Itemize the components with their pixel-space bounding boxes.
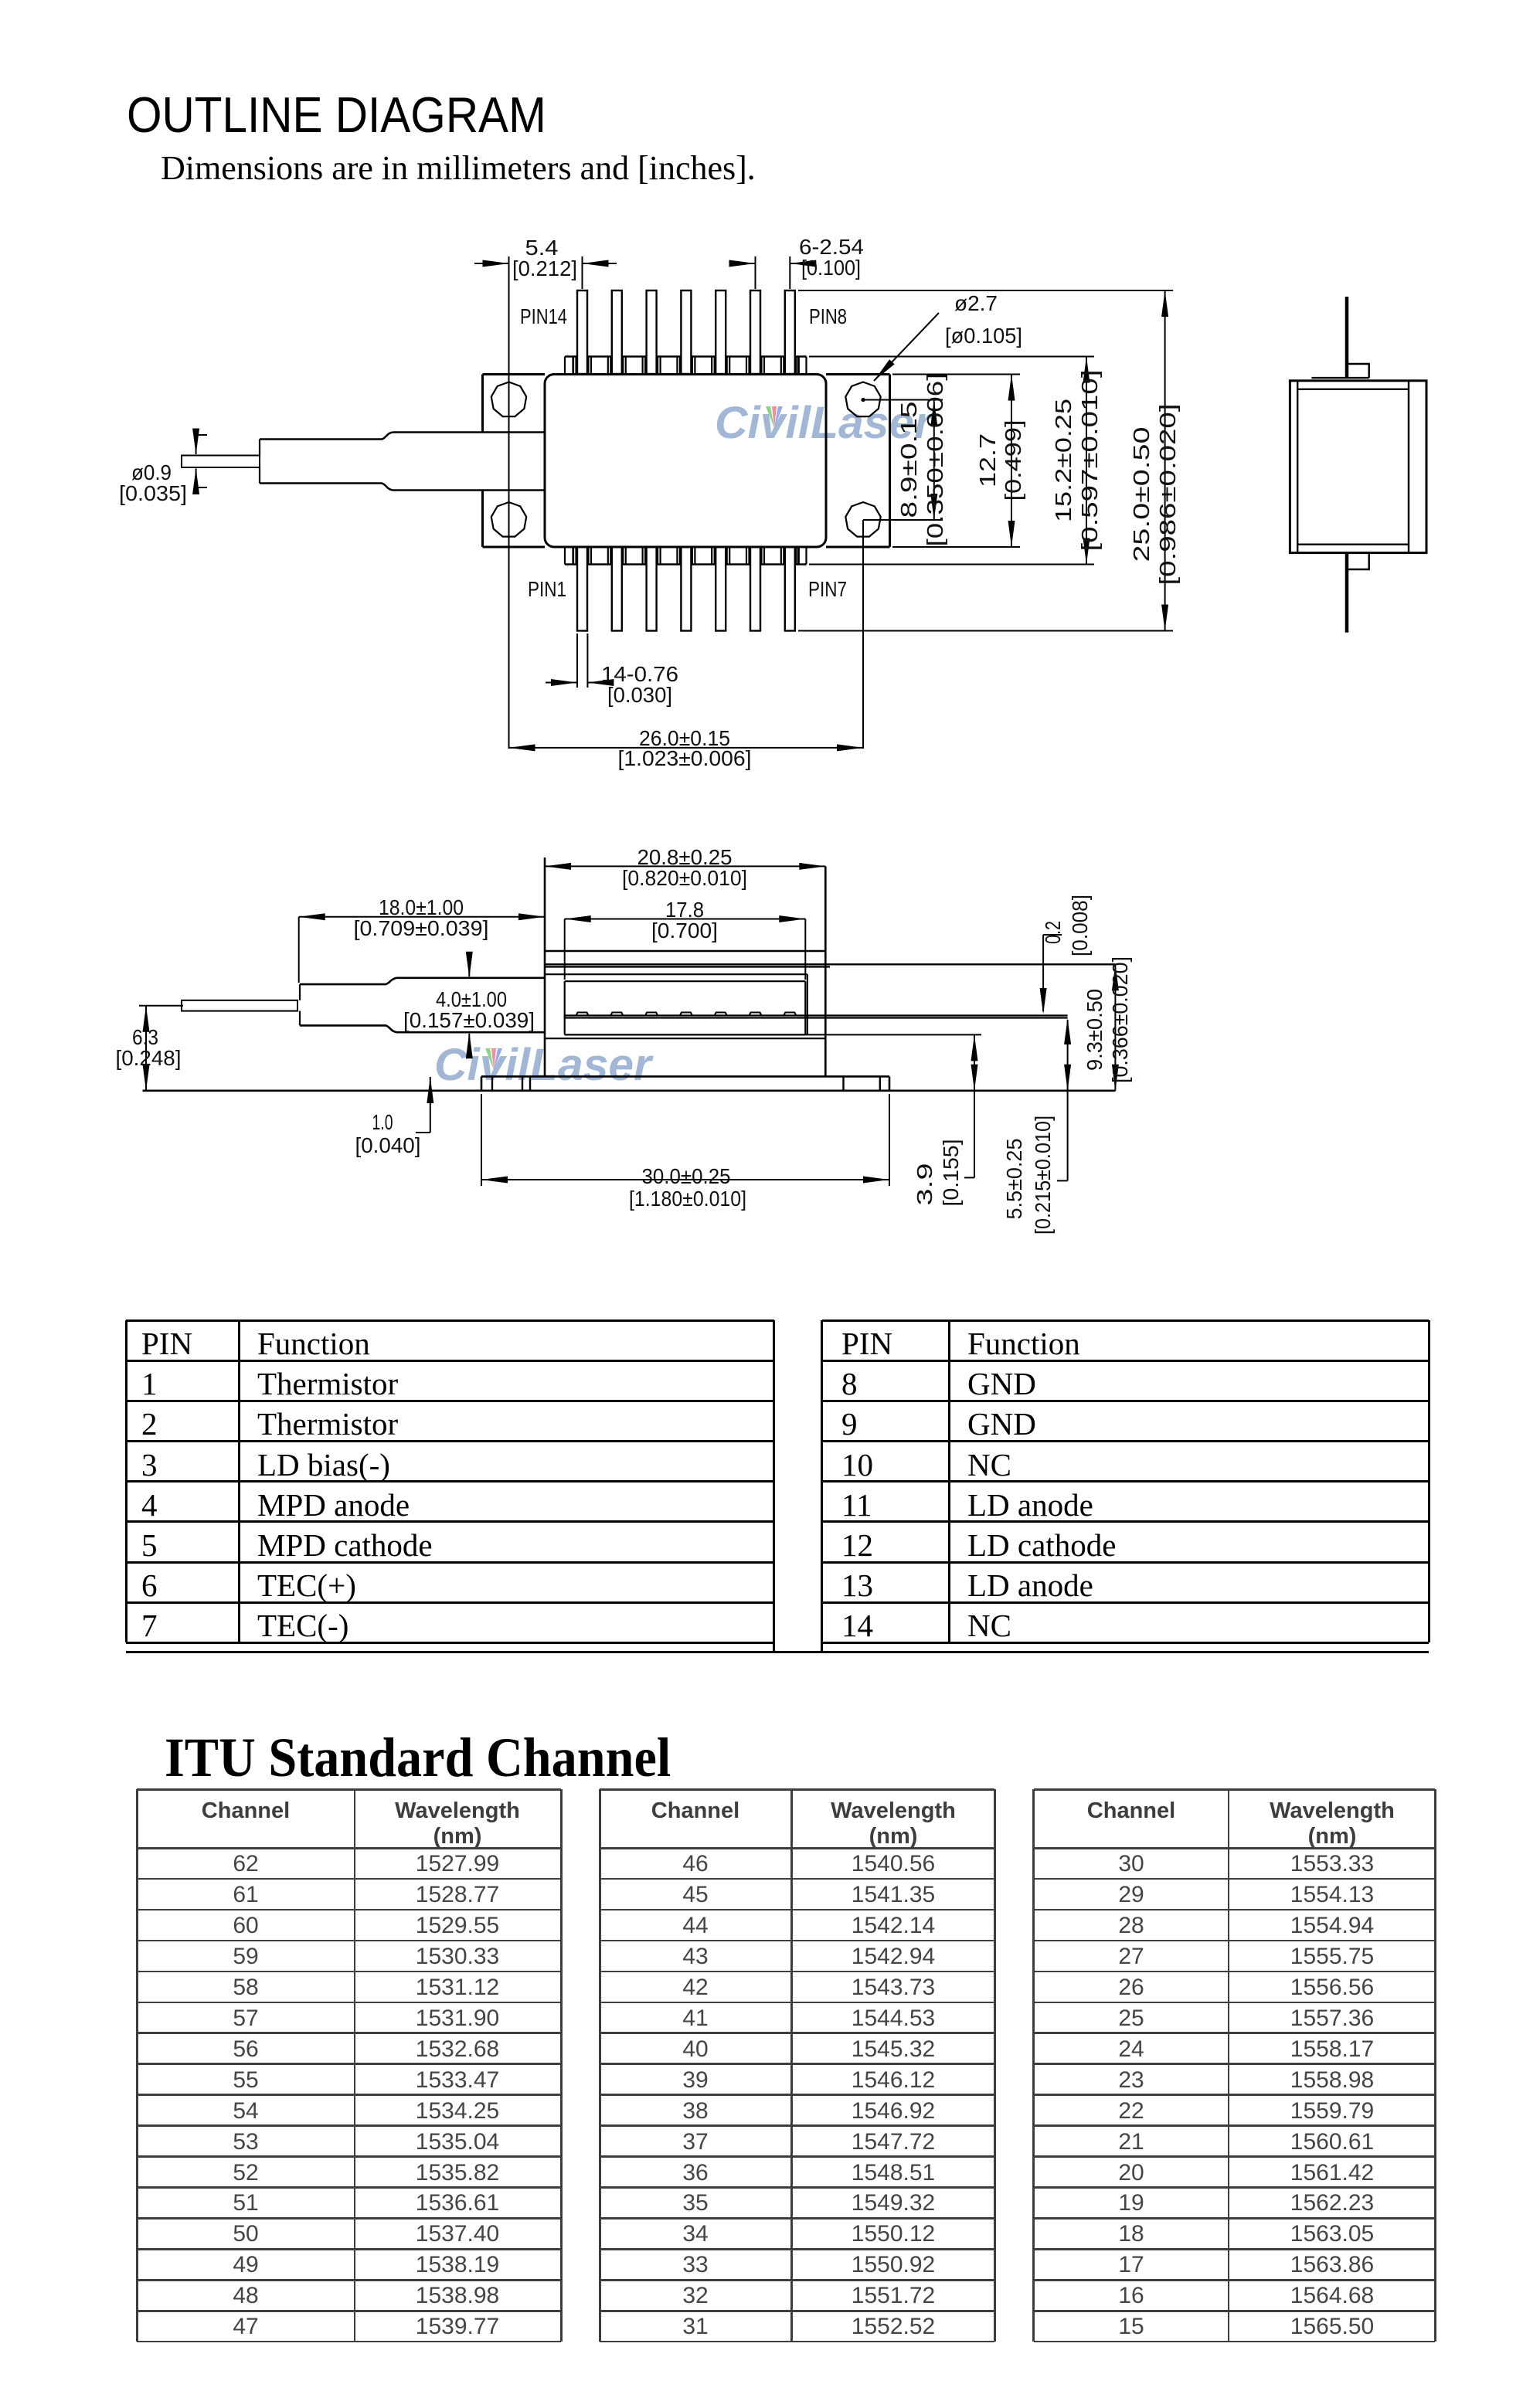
svg-text:1.0: 1.0: [372, 1110, 393, 1134]
dim 17.8 extension lines: [564, 919, 566, 980]
ITU channel table starting ch 62: [137, 1788, 561, 1791]
mounting hole top-left: [491, 382, 526, 417]
dim ø0.9 arrows: [195, 435, 197, 454]
svg-text:[0.350±0.006]: [0.350±0.006]: [923, 373, 948, 547]
svg-text:PIN7: PIN7: [808, 577, 847, 601]
ITU channel table starting ch 46: [600, 1788, 994, 1791]
package body (top view): [545, 375, 826, 548]
end view lid bottom line: [1297, 544, 1409, 545]
svg-text:PIN1: PIN1: [528, 577, 566, 601]
dim 18.0±1.00 [0.709±0.039]: [299, 916, 545, 918]
side view body top edge: [545, 950, 825, 953]
side view fiber boot end: [299, 984, 301, 1000]
dim 6.3 extension line: [139, 1005, 183, 1007]
right flange: [826, 373, 890, 375]
mounting hole top-right: [845, 382, 880, 417]
bottom pins comb (PIN1..PIN7): [577, 547, 587, 631]
svg-text:9.3±0.50: 9.3±0.50: [1083, 989, 1107, 1071]
dim 12.7 extension lines: [892, 374, 1020, 375]
svg-text:12.7: 12.7: [976, 433, 1001, 487]
side view pin sheet double line: [565, 1014, 1068, 1016]
dim 9.3±0.50 [0.366±0.020]: [1114, 964, 1116, 1091]
dim 5.4 [0.212]: [474, 263, 509, 264]
side view body box: [544, 858, 546, 1076]
svg-text:[0.040]: [0.040]: [355, 1133, 421, 1157]
svg-text:3.9: 3.9: [913, 1163, 937, 1206]
dim 25.0±0.50 [0.986±0.020]: [1164, 290, 1166, 631]
dim 26.0 extension line right: [862, 520, 864, 749]
dim 4.0±1.00 [0.157±0.039]: [468, 963, 470, 977]
svg-text:[0.035]: [0.035]: [119, 481, 187, 505]
end view inner wall right: [1408, 381, 1409, 553]
svg-text:[0.157±0.039]: [0.157±0.039]: [403, 1008, 535, 1032]
svg-text:[0.100]: [0.100]: [801, 256, 861, 280]
subtitle: [161, 148, 756, 188]
title OUTLINE DIAGRAM: [127, 86, 546, 144]
end view outer body: [1290, 381, 1426, 553]
svg-text:[0.986±0.020]: [0.986±0.020]: [1156, 404, 1181, 586]
dim 20.8±0.25 [0.820±0.010]: [545, 865, 825, 867]
side view base plate: [481, 1075, 889, 1078]
dim 12.7 [0.499]: [1011, 375, 1012, 548]
ITU Standard Channel heading: [165, 1726, 671, 1790]
bottom seal collar rail: [565, 563, 807, 565]
pin table outer bottom line: [126, 1651, 1429, 1653]
svg-text:[0.366±0.020]: [0.366±0.020]: [1108, 956, 1132, 1083]
top seal collar rail: [565, 355, 807, 357]
side view pin stubs: [576, 1013, 589, 1016]
svg-text:5.5±0.25: 5.5±0.25: [1002, 1139, 1026, 1220]
svg-text:[1.180±0.010]: [1.180±0.010]: [629, 1187, 746, 1211]
dim 25.0 extension lines: [798, 290, 1173, 291]
dim 17.8 [0.700]: [565, 919, 806, 920]
dim 5.5 extension: [1067, 1020, 1069, 1180]
dim 8.9±0.15 [0.350±0.006]: [933, 400, 935, 521]
end view top lead: [1345, 297, 1349, 378]
svg-text:30.0±0.25: 30.0±0.25: [642, 1164, 731, 1188]
mounting hole bottom-left: [491, 502, 526, 537]
end view inner wall left: [1297, 381, 1298, 553]
fiber snout - wide tube (top view): [393, 431, 545, 433]
dim 30.0 extension lines: [481, 1094, 482, 1186]
mounting hole bottom-right: [845, 502, 880, 537]
dim 30.0±0.25 [1.180±0.010]: [481, 1179, 889, 1180]
dim 18.0 extension line: [298, 917, 300, 983]
end view lid top line: [1297, 389, 1409, 390]
svg-text:[1.023±0.006]: [1.023±0.006]: [618, 746, 752, 770]
svg-text:[0.155]: [0.155]: [939, 1139, 963, 1207]
end view top lead step: [1347, 364, 1369, 378]
side view inner frame right wall: [807, 974, 808, 1034]
svg-text:0.2: 0.2: [1041, 921, 1065, 944]
end view bottom lip: [1311, 552, 1368, 553]
side view snout wide tube: [396, 977, 545, 980]
side view lid inner line: [545, 973, 807, 975]
fiber stub (top view): [182, 456, 260, 468]
dim 3.9 [0.155]: [974, 1034, 975, 1177]
svg-text:25.0±0.50: 25.0±0.50: [1130, 427, 1154, 562]
svg-text:[ø0.105]: [ø0.105]: [945, 324, 1022, 348]
dim 3.9 extension line: [805, 1034, 981, 1035]
svg-text:[0.212]: [0.212]: [512, 256, 577, 280]
dim 6-2.54 [0.100]: [732, 263, 756, 264]
svg-text:[0.008]: [0.008]: [1068, 895, 1092, 956]
svg-text:8.9±0.15: 8.9±0.15: [897, 402, 922, 518]
top pins comb (PIN14..PIN8): [577, 290, 587, 374]
dim 14-0.76 [0.030]: [546, 682, 577, 684]
ITU channel table starting ch 30: [1034, 1788, 1436, 1791]
fiber boot (top view): [259, 440, 260, 456]
side view baseline (bottom surface): [143, 1090, 1116, 1092]
left flange ears: [483, 373, 546, 375]
dim 15.2±0.25 [0.597±0.010]: [1086, 357, 1087, 565]
dim 8.9 extension lines: [863, 399, 943, 401]
pin function table: [126, 1319, 774, 1322]
dim ø2.7 [ø0.105] leader: [874, 313, 939, 381]
svg-text:[0.820±0.010]: [0.820±0.010]: [622, 866, 747, 890]
svg-text:15.2±0.25: 15.2±0.25: [1052, 399, 1076, 522]
side view fiber stub: [182, 1000, 297, 1011]
dim 6.3 [0.248]: [145, 1006, 147, 1091]
dim 5.4 [0.212] extension lines: [508, 256, 510, 749]
dim 6-2.54 [0.100] extension lines: [755, 256, 756, 289]
end view bottom lead step: [1347, 553, 1369, 569]
svg-text:[0.215±0.010]: [0.215±0.010]: [1031, 1116, 1055, 1235]
side view body inner bottom: [545, 1038, 825, 1039]
dim 1.0 [0.040] leader: [430, 1077, 431, 1133]
dim 14-0.76 extension lines: [576, 633, 578, 688]
svg-text:[0.499]: [0.499]: [1001, 420, 1026, 501]
side view lid double line: [545, 963, 1115, 965]
dim 26.0±0.15 [1.023±0.006]: [509, 747, 864, 749]
end view bottom lead: [1345, 553, 1349, 633]
svg-text:PIN14: PIN14: [520, 304, 567, 328]
svg-text:[0.248]: [0.248]: [116, 1046, 182, 1070]
svg-text:[0.709±0.039]: [0.709±0.039]: [354, 916, 489, 940]
dim 15.2 extension lines: [809, 356, 1094, 358]
svg-text:[0.597±0.010]: [0.597±0.010]: [1078, 370, 1103, 552]
svg-text:ø2.7: ø2.7: [954, 291, 998, 315]
dim 0.2 bracket: [1042, 935, 1044, 1011]
end view top lip: [1311, 377, 1368, 379]
svg-text:PIN8: PIN8: [809, 304, 847, 328]
svg-text:[0.700]: [0.700]: [651, 919, 718, 942]
svg-text:[0.030]: [0.030]: [607, 683, 672, 707]
side view inner frame: [565, 980, 806, 982]
